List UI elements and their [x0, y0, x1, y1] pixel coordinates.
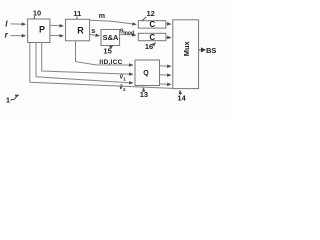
wire s: R to S&A — [90, 35, 100, 36]
svg-text:S&A: S&A — [103, 33, 119, 42]
leader 13 to Q — [143, 88, 145, 92]
svg-text:IID,ICC: IID,ICC — [99, 59, 122, 66]
wire m: R to coder C 12 — [90, 20, 137, 24]
svg-text:mod: mod — [123, 31, 134, 37]
wire coder C 12 to Mux — [166, 23, 171, 25]
wire v2: P bottom to Q — [36, 43, 133, 84]
wire P bottom to Mux bottom corner — [30, 43, 173, 89]
leader 14 to Mux — [179, 90, 182, 95]
leader 16 to C — [153, 43, 155, 45]
svg-text:14: 14 — [177, 93, 186, 102]
box Q 13 (quantizer) — [135, 60, 160, 86]
wire l input — [11, 23, 26, 25]
leader figure 1 squiggle — [11, 95, 20, 101]
svg-text:1: 1 — [123, 76, 126, 81]
svg-text:m: m — [99, 13, 105, 20]
svg-text:P: P — [39, 25, 45, 35]
svg-text:12: 12 — [147, 9, 155, 18]
leader 11 to R — [76, 17, 79, 20]
wire P to R lower — [50, 34, 63, 37]
leader 15 to S&A — [111, 45, 113, 47]
wire r input — [11, 35, 26, 37]
svg-text:BS: BS — [206, 46, 216, 55]
box P (parameter extraction) — [28, 19, 50, 43]
svg-text:16: 16 — [145, 42, 153, 51]
wire Q to Mux out2 — [160, 74, 172, 77]
wire P to R upper — [50, 24, 63, 27]
box Mux 14 — [173, 20, 199, 89]
wire coder C 16 to Mux — [166, 36, 171, 39]
box R — [66, 19, 90, 41]
box C 12 (coder top) — [138, 21, 166, 28]
wire IID,ICC: R bottom to Q — [76, 41, 134, 65]
svg-text:Mux: Mux — [182, 40, 191, 56]
svg-text:1: 1 — [6, 96, 10, 105]
wire s_mod: S&A to coder C 16 — [120, 33, 136, 36]
svg-text:2: 2 — [123, 87, 126, 92]
leader 12 to C — [142, 17, 147, 21]
svg-text:C: C — [149, 33, 155, 42]
leader 10 to P — [34, 16, 35, 19]
wire BS output of Mux — [199, 49, 201, 51]
box C 16 (coder bottom) — [138, 33, 166, 40]
svg-text:C: C — [149, 20, 155, 29]
svg-text:10: 10 — [33, 9, 41, 18]
svg-text:15: 15 — [103, 46, 111, 55]
svg-text:s: s — [91, 28, 95, 35]
svg-text:R: R — [77, 25, 84, 35]
arrowhead BS output — [201, 47, 206, 52]
box S&A 15 — [101, 30, 120, 46]
wire Q to Mux out3 — [160, 83, 172, 86]
svg-text:Q: Q — [143, 70, 149, 77]
wire Q to Mux out1 — [160, 65, 172, 67]
wire v1: P bottom to Q — [42, 43, 133, 75]
